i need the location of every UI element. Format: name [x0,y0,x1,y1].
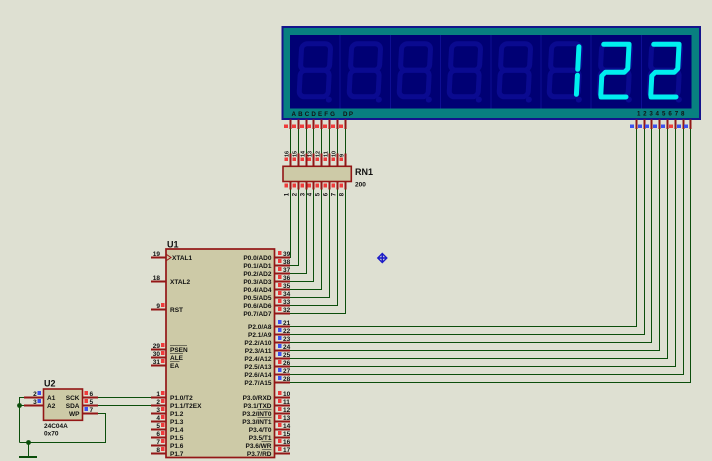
display pin A (segment) [284,120,290,130]
eeprom U2 24C04A body [44,389,83,420]
svg-text:15: 15 [283,431,291,438]
U1 pin 21 P2.0/A8 [248,320,291,331]
wire RN1 pin 8 to U1 P0.7 [290,190,346,314]
svg-text:P3.4/T0: P3.4/T0 [249,427,272,434]
svg-text:14: 14 [283,423,291,430]
svg-text:P0.3/AD3: P0.3/AD3 [243,279,272,286]
svg-text:5: 5 [90,399,94,406]
svg-text:29: 29 [153,343,161,350]
svg-text:P1.5: P1.5 [170,435,184,442]
svg-text:28: 28 [283,376,291,383]
svg-text:U1: U1 [167,240,179,250]
svg-text:36: 36 [283,275,291,282]
display digit cell 5 unlit [499,44,535,103]
U1 pin 32 P0.7/AD7 [243,307,290,318]
display digit cell 1 unlit [299,44,335,103]
svg-text:5: 5 [156,423,160,430]
U1 pin 22 P2.1/A9 [248,328,291,339]
U1 pin 14 P3.4/T0 [249,423,291,434]
svg-text:13: 13 [308,151,314,157]
display digit separator 4 [490,35,492,109]
svg-text:P1.6: P1.6 [170,443,184,450]
svg-text:24C04A: 24C04A [44,423,68,430]
svg-text:XTAL2: XTAL2 [170,279,190,286]
RN1 pin 8 (bottom) [339,182,345,197]
U1 pin 30 ALE [151,351,184,362]
wire segment G display to RN1 [337,129,339,154]
RN1 pin 9 (top) [339,154,345,167]
svg-text:P1.0/T2: P1.0/T2 [170,395,193,402]
U1 pin 12 P3.2/INT0 [242,407,290,418]
U1 pin 31 EA [151,359,180,370]
svg-text:P2.0/A8: P2.0/A8 [248,324,272,331]
display pin digit 6 [669,120,675,130]
svg-text:P0.2/AD2: P0.2/AD2 [243,271,272,278]
RN1 pin 12 (top) [315,151,321,166]
display digit cell 2 unlit [349,44,385,103]
svg-text:8: 8 [156,447,160,454]
svg-text:12: 12 [283,407,291,414]
svg-text:P0.1/AD1: P0.1/AD1 [243,263,272,270]
U1 pin 38 P0.1/AD1 [243,259,290,270]
svg-text:P0.7/AD7: P0.7/AD7 [243,311,272,318]
U1 pin 35 P0.4/AD4 [243,283,290,294]
U1 pin 15 P3.5/T1 [249,431,291,442]
wire RN1 pin 4 to U1 P0.3 [290,190,314,282]
svg-text:P2.5/A13: P2.5/A13 [244,364,271,371]
RN1 pin 7 (bottom) [331,182,337,197]
display digit cell 8 showing 2 [649,44,685,103]
svg-text:11: 11 [324,151,330,157]
microcontroller U1 (8051) body [166,249,275,458]
wire RN1 pin 3 to U1 P0.2 [290,190,307,274]
svg-text:22: 22 [283,328,291,335]
wire U1 P2.4 to display digit 5 [290,129,668,359]
svg-text:200: 200 [355,182,366,189]
svg-text:3: 3 [156,407,160,414]
svg-text:P3.5/T1: P3.5/T1 [249,435,272,442]
svg-text:0x70: 0x70 [44,431,59,438]
U1 pin 11 P3.1/TXD [243,399,290,410]
svg-text:27: 27 [283,368,291,375]
display pin DP (segment) [339,120,345,130]
svg-text:P0.0/AD0: P0.0/AD0 [243,255,272,262]
svg-text:DP: DP [343,111,353,118]
svg-text:WP: WP [69,411,80,418]
U2 pin 3 A2 [24,399,56,410]
wire U1 P2.7 to display digit 8 [290,129,691,383]
svg-text:P0.5/AD5: P0.5/AD5 [243,295,272,302]
wire RN1 pin 2 to U1 P0.1 [290,190,299,266]
svg-text:16: 16 [285,151,291,157]
wire U2 A2 to ground net [20,405,25,407]
wire U2 SCK to U1 P1.0/T2 [98,397,151,399]
svg-text:P3.6/WR: P3.6/WR [245,443,271,450]
U1 pin 1 P1.0/T2 [151,391,193,402]
wire U1 P2.1 to display digit 2 [290,129,645,335]
RN1 pin 16 (top) [284,151,290,166]
svg-text:3: 3 [33,399,37,406]
svg-text:26: 26 [283,360,291,367]
svg-text:A1: A1 [47,395,56,402]
U1 pin 24 P2.3/A11 [245,344,291,355]
RN1 pin 1 (bottom) [284,182,290,197]
U1 pin 37 P0.2/AD2 [243,267,290,278]
display digit cell 6 showing 1 [549,44,585,103]
svg-text:7: 7 [90,407,94,414]
display pin D (segment) [307,120,313,130]
svg-text:PSEN: PSEN [170,347,188,354]
display digit cell 4 unlit [449,44,485,103]
U1 pin 7 P1.6 [151,439,184,450]
svg-text:P1.1/T2EX: P1.1/T2EX [170,403,202,410]
display DS1 7SEG-MPX8-CC-BLUE body [282,26,702,120]
svg-text:6: 6 [90,391,94,398]
display pin E (segment) [315,120,321,130]
display digit separator 6 [590,35,592,109]
wire U1 P2.6 to display digit 7 [290,129,684,375]
U1 pin 3 P1.2 [151,407,184,418]
svg-text:18: 18 [153,275,161,282]
svg-text:P3.3/INT1: P3.3/INT1 [242,419,272,426]
svg-text:P0.6/AD6: P0.6/AD6 [243,303,272,310]
U1 pin 27 P2.6/A14 [244,368,290,379]
svg-text:RST: RST [170,307,183,314]
svg-text:13: 13 [283,415,291,422]
wire segment E display to RN1 [321,129,323,154]
svg-text:P1.2: P1.2 [170,411,184,418]
U1 pin 25 P2.4/A12 [244,352,290,363]
svg-text:35: 35 [283,283,291,290]
display pin digit 1 [630,120,636,130]
RN1 pin 6 (bottom) [323,182,329,197]
wire RN1 pin 1 to U1 P0.0 [290,190,291,258]
U1 pin 16 P3.6/WR [245,439,290,450]
wire U1 P2.0 to display digit 1 [290,129,637,327]
svg-text:12: 12 [316,151,322,157]
junction ground tap [26,440,31,445]
U1 pin 13 P3.3/INT1 [242,415,290,426]
svg-text:7: 7 [156,439,160,446]
display pin digit 8 [684,120,690,130]
svg-text:15: 15 [293,151,299,157]
svg-text:21: 21 [283,320,291,327]
U1 pin 39 P0.0/AD0 [243,251,290,262]
display pin digit 3 [645,120,651,130]
RN1 pin 11 (top) [323,151,329,166]
display digit separator 2 [389,35,391,109]
svg-text:XTAL1: XTAL1 [172,255,192,262]
U2 pin 6 SCK [66,391,98,402]
U1 pin 6 P1.5 [151,431,184,442]
wire segment DP display to RN1 [345,129,347,154]
wire U1 P2.5 to display digit 6 [290,129,676,367]
svg-text:SCK: SCK [66,395,80,402]
svg-text:10: 10 [283,391,291,398]
resistor network RN1 body [283,166,351,181]
svg-text:33: 33 [283,299,291,306]
svg-text:34: 34 [283,291,291,298]
svg-text:14: 14 [301,150,307,157]
svg-text:9: 9 [156,303,160,310]
wire RN1 pin 6 to U1 P0.5 [290,190,330,298]
svg-text:2: 2 [156,399,160,406]
svg-text:ALE: ALE [170,355,184,362]
U1 pin 34 P0.5/AD5 [243,291,290,302]
RN1 pin 10 (top) [331,151,337,166]
move cursor crosshair [378,254,387,263]
svg-text:P1.7: P1.7 [170,451,184,458]
svg-text:P2.1/A9: P2.1/A9 [248,332,272,339]
U1 pin 28 P2.7/A15 [244,376,290,387]
svg-text:17: 17 [283,447,291,454]
svg-text:RN1: RN1 [355,167,373,177]
RN1 pin 15 (top) [292,151,298,166]
svg-text:38: 38 [283,259,291,266]
display digit label 12345678 [637,110,685,117]
svg-text:P1.3: P1.3 [170,419,184,426]
svg-text:23: 23 [283,336,291,343]
display pin digit 7 [677,120,683,130]
svg-text:10: 10 [332,151,338,157]
RN1 pin 5 (bottom) [315,182,321,197]
wire U2 SDA to U1 P1.1/T2EX [98,405,151,407]
display digit separator 3 [440,35,442,109]
U1 pin 5 P1.4 [151,423,184,434]
svg-text:4: 4 [156,415,160,422]
svg-text:P2.4/A12: P2.4/A12 [244,356,271,363]
U1 pin 19 XTAL1 [151,251,192,262]
U1 pin 2 P1.1/T2EX [151,399,202,410]
svg-text:P0.4/AD4: P0.4/AD4 [243,287,272,294]
wire U1 P2.3 to display digit 4 [290,129,660,351]
wire ground net bottom run to WP [20,414,106,443]
U1 pin 4 P1.3 [151,415,184,426]
wire U1 P2.2 to display digit 3 [290,129,652,343]
RN1 pin 4 (bottom) [307,182,313,197]
svg-text:31: 31 [153,359,161,366]
U1 pin 33 P0.6/AD6 [243,299,290,310]
svg-text:P1.4: P1.4 [170,427,184,434]
svg-text:39: 39 [283,251,291,258]
wire segment C display to RN1 [306,129,308,154]
svg-text:9: 9 [340,154,346,157]
display pin G (segment) [331,120,337,130]
U1 pin 18 XTAL2 [151,275,190,286]
display digit separator 7 [640,35,642,109]
svg-text:P3.7/RD: P3.7/RD [247,451,272,458]
display digit cell 7 showing 2 [599,44,635,103]
wire U2 A1 to ground net [20,398,25,443]
RN1 pin 3 (bottom) [300,182,306,197]
svg-text:A2: A2 [47,403,56,410]
display pin B (segment) [292,120,298,130]
svg-text:P2.2/A10: P2.2/A10 [244,340,271,347]
svg-text:P3.1/TXD: P3.1/TXD [243,403,271,410]
display digit separator 1 [339,35,341,109]
U1 pin 8 P1.7 [151,447,184,458]
svg-text:P2.7/A15: P2.7/A15 [244,380,271,387]
display pin digit 4 [653,120,659,130]
U2 pin 2 A1 [24,391,56,402]
svg-text:16: 16 [283,439,291,446]
display pin digit 5 [661,120,667,130]
RN1 pin 13 (top) [307,151,313,166]
svg-text:P3.2/INT0: P3.2/INT0 [242,411,272,418]
U2 pin 7 WP [69,407,98,418]
display pin F (segment) [323,120,329,130]
U1 pin 10 P3.0/RXD [243,391,291,402]
svg-text:25: 25 [283,352,291,359]
svg-text:19: 19 [153,251,161,258]
svg-text:EA: EA [170,363,179,370]
RN1 pin 14 (top) [300,150,306,166]
svg-text:11: 11 [283,399,290,406]
wire segment D display to RN1 [313,129,315,154]
wire segment F display to RN1 [329,129,331,154]
svg-text:30: 30 [153,351,161,358]
junction A2/ground vertical [17,403,22,408]
display digit cell 3 unlit [399,44,435,103]
svg-text:37: 37 [283,267,291,274]
svg-text:32: 32 [283,307,291,314]
RN1 pin 2 (bottom) [292,182,298,197]
wire RN1 pin 5 to U1 P0.4 [290,190,322,290]
svg-text:24: 24 [283,344,291,351]
svg-text:6: 6 [156,431,160,438]
display pin digit 2 [638,120,644,130]
display segment label ABCDEFG DP [292,111,354,118]
wire RN1 pin 7 to U1 P0.6 [290,190,338,306]
svg-text:P2.3/A11: P2.3/A11 [245,348,272,355]
svg-text:P3.0/RXD: P3.0/RXD [243,395,272,402]
U1 pin 9 RST [151,303,183,314]
svg-text:1: 1 [156,391,160,398]
svg-text:U2: U2 [44,379,56,389]
U1 pin 36 P0.3/AD3 [243,275,290,286]
display pin C (segment) [300,120,306,130]
display digit separator 5 [540,35,542,109]
wire segment A display to RN1 [290,129,292,154]
wire segment B display to RN1 [298,129,300,154]
U1 pin 29 PSEN [151,343,188,354]
U1 pin 23 P2.2/A10 [244,336,290,347]
svg-text:2: 2 [33,391,37,398]
svg-text:SDA: SDA [66,403,80,410]
ground symbol [19,443,37,458]
U1 pin 26 P2.5/A13 [244,360,290,371]
svg-text:P2.6/A14: P2.6/A14 [244,372,271,379]
U2 pin 5 SDA [66,399,98,410]
U1 pin 17 P3.7/RD [247,447,291,458]
